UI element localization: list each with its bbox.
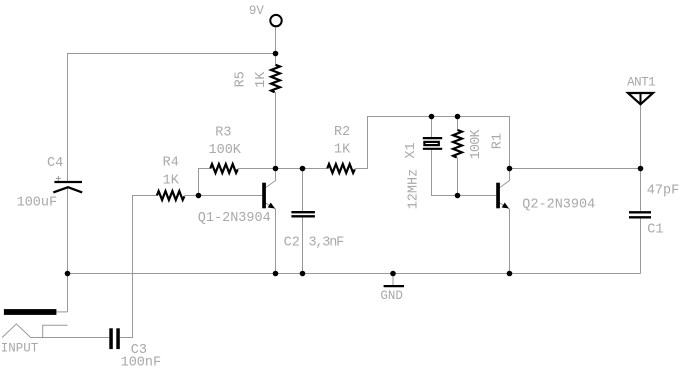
svg-text:100K: 100K <box>209 143 242 158</box>
svg-text:C4: C4 <box>47 156 63 171</box>
svg-text:ANT1: ANT1 <box>627 76 655 90</box>
svg-text:1K: 1K <box>254 71 269 88</box>
svg-text:R4: R4 <box>163 155 179 170</box>
svg-text:47pF: 47pF <box>647 184 679 199</box>
svg-text:Q1-2N3904: Q1-2N3904 <box>198 211 271 226</box>
svg-text:1K: 1K <box>163 174 180 189</box>
svg-text:100uF: 100uF <box>17 196 58 211</box>
svg-text:C2: C2 <box>284 235 300 250</box>
svg-text:12MHz: 12MHz <box>406 169 421 210</box>
svg-text:100K: 100K <box>469 128 484 159</box>
svg-text:R2: R2 <box>334 125 350 140</box>
svg-text:X1: X1 <box>404 142 419 158</box>
svg-text:1K: 1K <box>334 142 351 157</box>
svg-text:3,3nF: 3,3nF <box>309 235 345 250</box>
svg-text:100nF: 100nF <box>121 356 162 371</box>
svg-text:INPUT: INPUT <box>1 342 39 356</box>
svg-text:R3: R3 <box>215 126 231 141</box>
svg-text:GND: GND <box>380 289 403 303</box>
svg-text:C1: C1 <box>647 223 663 238</box>
svg-text:9V: 9V <box>249 4 265 18</box>
svg-text:Q2-2N3904: Q2-2N3904 <box>522 198 595 213</box>
svg-text:R5: R5 <box>233 71 248 87</box>
svg-text:R1: R1 <box>490 133 505 149</box>
